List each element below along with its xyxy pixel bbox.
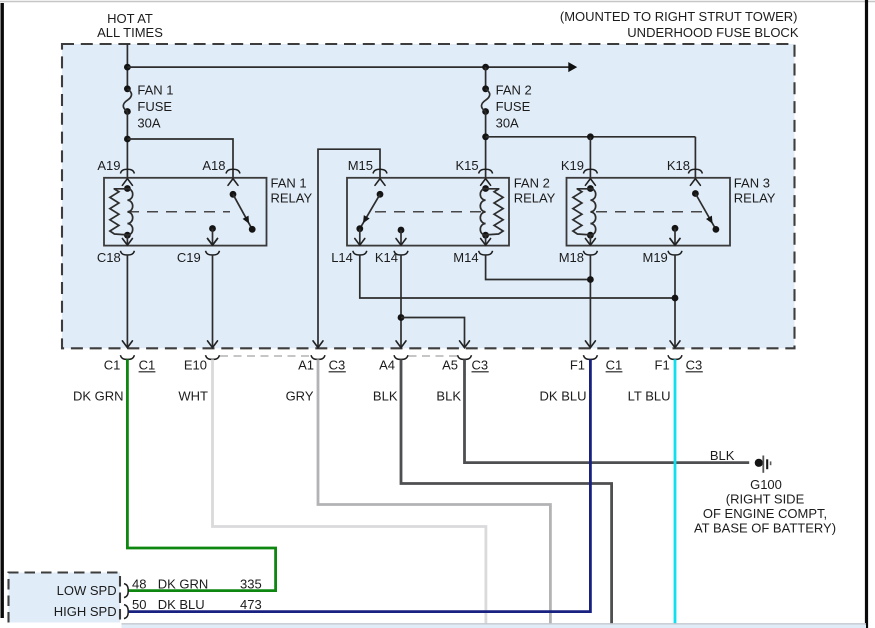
svg-text:E10: E10 <box>184 358 207 373</box>
relay coil relay1 <box>110 185 133 239</box>
wire tap to fuse2 <box>485 67 487 89</box>
wire DK BLU F1 to high-speed pin 50 <box>129 359 591 611</box>
svg-text:ALL TIMES: ALL TIMES <box>97 25 163 40</box>
connector F1 (C3) <box>655 355 682 372</box>
terminal A19 <box>97 158 134 185</box>
relay box FAN 2 RELAY <box>347 178 509 246</box>
pin 50 labels <box>132 597 262 612</box>
svg-text:473: 473 <box>240 597 262 612</box>
node splice on M19 <box>672 295 679 302</box>
connector ref C3 underlined <box>329 358 346 373</box>
wire bus to K18 <box>694 137 696 178</box>
svg-text:HIGH SPD: HIGH SPD <box>54 604 117 619</box>
svg-text:A5: A5 <box>442 358 458 373</box>
terminal M14 <box>453 235 492 265</box>
svg-text:RELAY: RELAY <box>734 191 776 206</box>
terminal M19 <box>643 239 682 348</box>
relay3 internal dashed link <box>596 211 702 213</box>
wire junction to A18 <box>127 139 233 178</box>
svg-text:UNDERHOOD FUSE BLOCK: UNDERHOOD FUSE BLOCK <box>627 25 799 40</box>
svg-text:DK GRN: DK GRN <box>158 577 209 592</box>
svg-text:A18: A18 <box>202 158 225 173</box>
svg-text:DK GRN: DK GRN <box>73 389 124 404</box>
pin 48 terminal cup <box>124 584 128 598</box>
relay switch arm relay1 <box>230 191 256 233</box>
terminal A18 <box>202 158 240 185</box>
connector A4 <box>379 355 408 372</box>
connector ref C3 underlined <box>472 358 489 373</box>
svg-text:48: 48 <box>132 577 146 592</box>
terminal M18 <box>559 235 598 347</box>
svg-text:M15: M15 <box>348 158 373 173</box>
svg-text:GRY: GRY <box>286 389 314 404</box>
node fuse2 output junction <box>482 133 489 140</box>
node power bus tap for fuse2 <box>482 64 489 71</box>
connector C1 <box>104 355 135 372</box>
wire BLK A5 to ground <box>465 359 750 462</box>
wire fuse2 output <box>485 112 487 178</box>
arrow into connector F1a <box>585 341 595 348</box>
svg-text:30A: 30A <box>137 116 160 131</box>
label FAN 3 RELAY <box>734 176 776 206</box>
pin 48 labels <box>132 577 262 592</box>
relay2 K14 fixed contact <box>396 227 406 246</box>
svg-text:FAN 2: FAN 2 <box>514 176 550 191</box>
relay2 internal dashed link <box>375 211 481 213</box>
svg-text:HOT AT: HOT AT <box>107 11 153 26</box>
svg-text:AT BASE OF BATTERY): AT BASE OF BATTERY) <box>694 521 836 536</box>
svg-text:C18: C18 <box>97 250 121 265</box>
svg-text:BLK: BLK <box>373 389 398 404</box>
svg-text:FAN 1: FAN 1 <box>137 83 173 98</box>
terminal C19 <box>177 239 220 348</box>
svg-text:DK BLU: DK BLU <box>540 389 587 404</box>
relay1 C19 fixed contact <box>208 225 218 245</box>
wire battery feed into box <box>126 44 128 89</box>
terminal K18 <box>667 158 703 185</box>
page left border line <box>1 3 4 618</box>
wire BLK A4 down <box>401 359 612 624</box>
wire K14 down to A4 <box>400 255 402 347</box>
relay coil relay2 <box>480 185 503 239</box>
wire fuse1 output <box>126 112 128 178</box>
bottom box fill <box>122 625 867 628</box>
connector ref C1 underlined <box>606 358 623 373</box>
wire WHT E10 down <box>213 359 486 623</box>
relay1 internal dashed link <box>128 211 230 213</box>
arrow into connector C1 <box>122 341 132 348</box>
svg-text:(RIGHT SIDE: (RIGHT SIDE <box>726 492 805 507</box>
svg-text:C3: C3 <box>686 358 703 373</box>
svg-text:F1: F1 <box>570 358 585 373</box>
node K14 ground splice <box>398 314 405 321</box>
wire L14 to M19 splice <box>360 255 675 298</box>
svg-text:L14: L14 <box>331 250 353 265</box>
svg-text:DK BLU: DK BLU <box>158 597 205 612</box>
connector ref C1 underlined <box>139 358 156 373</box>
wire DK GRN C1 to low-speed pin 48 <box>127 359 275 590</box>
svg-text:C1: C1 <box>104 358 121 373</box>
connector A1 <box>298 355 325 372</box>
cooling fan motor dashed box <box>9 573 121 623</box>
arrow into connector E10 <box>208 341 218 348</box>
relay box FAN 1 RELAY <box>104 178 267 246</box>
node splice on M18 <box>587 276 594 283</box>
svg-text:M14: M14 <box>453 250 478 265</box>
connector ref C3 underlined <box>686 358 703 373</box>
relay switch arm relay2 <box>356 191 383 232</box>
wire power bus to fan2 fuse <box>127 66 569 68</box>
label FAN 2 RELAY <box>514 176 556 206</box>
svg-text:K15: K15 <box>455 158 478 173</box>
power bus arrow <box>569 63 576 71</box>
relay coil relay3 <box>573 185 596 239</box>
node bus tap K19 <box>587 133 594 140</box>
page top border line <box>0 1 875 3</box>
arrow into connector A1 <box>313 341 323 348</box>
svg-text:A19: A19 <box>97 158 120 173</box>
ground G100 <box>755 456 771 473</box>
fuse FAN 1 30A <box>123 83 173 131</box>
connector F1 (C1) <box>570 355 598 372</box>
terminal L14 <box>331 250 367 265</box>
svg-text:BLK: BLK <box>436 389 461 404</box>
wire LT BLU F1 down <box>674 359 677 624</box>
svg-text:LOW SPD: LOW SPD <box>57 583 117 598</box>
connector body dashed E10-A1 <box>220 355 311 357</box>
svg-text:50: 50 <box>132 597 146 612</box>
wire gray feed riser to M15 and A1 <box>318 149 380 347</box>
svg-text:BLK: BLK <box>710 448 735 463</box>
label G100 location <box>694 492 836 536</box>
arrow into connector F1b <box>670 341 680 348</box>
arrow into connector A4 <box>396 341 406 348</box>
bottom box top edge <box>122 623 867 625</box>
svg-text:LT BLU: LT BLU <box>628 389 671 404</box>
wire M14 to M18 splice <box>486 255 591 280</box>
svg-text:FUSE: FUSE <box>496 99 531 114</box>
svg-text:K18: K18 <box>667 158 690 173</box>
svg-text:FUSE: FUSE <box>137 99 172 114</box>
svg-text:C3: C3 <box>472 358 489 373</box>
node fuse1 output junction <box>124 136 131 143</box>
terminal K14 <box>375 250 408 265</box>
relay2 L14 contact to pin <box>355 229 365 246</box>
svg-text:C19: C19 <box>177 250 201 265</box>
svg-text:K19: K19 <box>561 158 584 173</box>
connector A5 <box>442 355 471 372</box>
svg-text:335: 335 <box>240 577 262 592</box>
svg-text:G100: G100 <box>750 477 782 492</box>
svg-text:C3: C3 <box>329 358 346 373</box>
underhood fuse block dashed box <box>62 44 795 348</box>
svg-text:(MOUNTED TO RIGHT STRUT TOWER): (MOUNTED TO RIGHT STRUT TOWER) <box>560 9 798 24</box>
page right border line <box>865 0 868 628</box>
svg-text:30A: 30A <box>496 116 519 131</box>
arrow into connector A5 <box>460 341 470 348</box>
node power junction <box>124 64 131 71</box>
connector E10 <box>184 355 220 372</box>
label FAN 1 RELAY <box>271 176 313 206</box>
terminal C18 <box>97 235 135 347</box>
pin 50 terminal cup <box>124 605 128 619</box>
svg-text:RELAY: RELAY <box>271 191 313 206</box>
svg-text:OF ENGINE COMPT,: OF ENGINE COMPT, <box>703 506 827 521</box>
svg-text:M18: M18 <box>559 250 584 265</box>
terminal K19 <box>561 158 598 185</box>
relay3 M19 fixed contact <box>670 225 680 245</box>
svg-text:A1: A1 <box>298 358 314 373</box>
svg-text:A4: A4 <box>379 358 395 373</box>
svg-text:FAN 2: FAN 2 <box>496 83 532 98</box>
svg-text:FAN 3: FAN 3 <box>734 176 770 191</box>
svg-text:K14: K14 <box>375 250 398 265</box>
svg-text:C1: C1 <box>606 358 623 373</box>
relay switch arm relay3 <box>692 190 719 233</box>
svg-text:M19: M19 <box>643 250 668 265</box>
svg-text:FAN 1: FAN 1 <box>271 176 307 191</box>
terminal K15 <box>455 158 492 185</box>
connector body dashed A4-A5 <box>409 355 458 357</box>
svg-text:F1: F1 <box>655 358 670 373</box>
terminal M15 <box>348 158 387 185</box>
relay box FAN 3 RELAY <box>567 178 731 246</box>
svg-text:C1: C1 <box>139 358 156 373</box>
label HOT AT ALL TIMES <box>97 11 163 40</box>
wire splice to A5 <box>401 318 465 348</box>
fuse FAN 2 30A <box>481 83 531 131</box>
wire bus to K19 <box>589 137 591 178</box>
wire fuse2 bus to K19 K18 <box>486 136 696 138</box>
svg-text:RELAY: RELAY <box>514 191 556 206</box>
wire GRY A1 down <box>318 359 550 623</box>
svg-text:WHT: WHT <box>178 389 208 404</box>
